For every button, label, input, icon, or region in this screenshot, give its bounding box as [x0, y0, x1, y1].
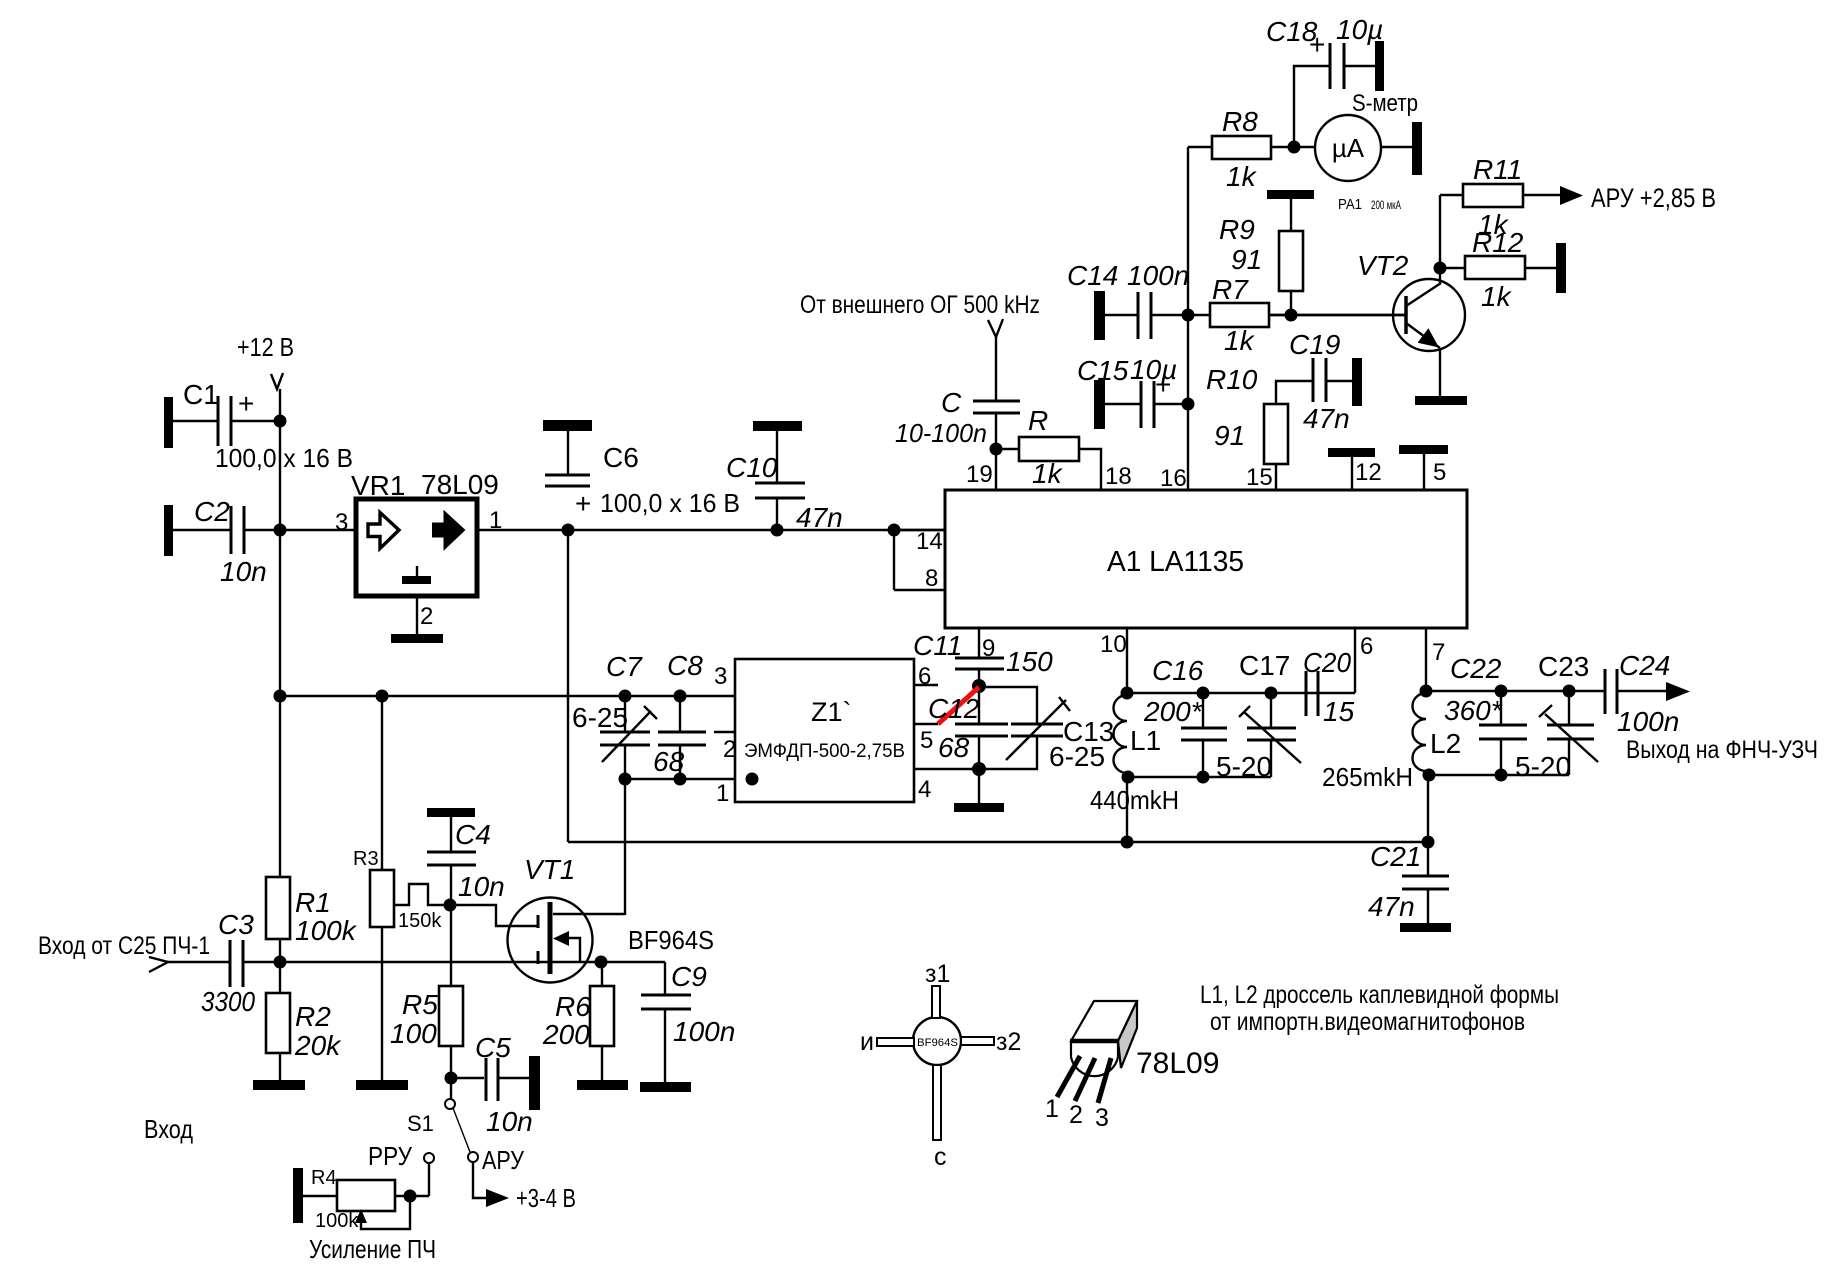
svg-text:100: 100	[390, 1018, 437, 1049]
svg-text:C4: C4	[455, 819, 491, 850]
svg-text:R7: R7	[1212, 274, 1249, 305]
svg-text:200*: 200*	[1143, 696, 1203, 727]
svg-text:R6: R6	[555, 991, 591, 1022]
svg-text:91: 91	[1231, 244, 1262, 275]
svg-text:VT2: VT2	[1357, 250, 1409, 281]
svg-text:5: 5	[1433, 459, 1446, 486]
svg-text:3: 3	[1095, 1104, 1109, 1132]
svg-text:Усиление ПЧ: Усиление ПЧ	[309, 1234, 436, 1264]
svg-text:18: 18	[1105, 463, 1132, 490]
svg-text:C5: C5	[475, 1032, 511, 1063]
svg-text:C17: C17	[1239, 650, 1290, 681]
svg-text:10n: 10n	[220, 556, 267, 587]
svg-text:6: 6	[1360, 633, 1373, 660]
svg-text:R: R	[1028, 405, 1048, 436]
svg-text:5: 5	[920, 727, 933, 754]
svg-text:1k: 1k	[1481, 281, 1513, 312]
svg-text:78L09: 78L09	[1136, 1047, 1219, 1080]
svg-text:7: 7	[1432, 639, 1445, 666]
svg-text:10µ: 10µ	[1336, 14, 1383, 45]
svg-text:200 мкА: 200 мкА	[1371, 198, 1401, 212]
svg-text:Вход от С25 ПЧ-1: Вход от С25 ПЧ-1	[38, 932, 210, 960]
svg-text:C19: C19	[1289, 329, 1340, 360]
svg-text:R9: R9	[1219, 214, 1255, 245]
svg-text:C2: C2	[194, 496, 230, 527]
svg-text:C11: C11	[913, 630, 962, 661]
svg-text:200: 200	[542, 1019, 590, 1050]
svg-text:C16: C16	[1152, 655, 1204, 686]
svg-text:20k: 20k	[294, 1030, 342, 1061]
svg-text:BF964S: BF964S	[628, 925, 714, 955]
svg-text:1k: 1k	[1224, 325, 1256, 356]
svg-text:10: 10	[1100, 631, 1127, 658]
svg-text:1: 1	[1045, 1095, 1059, 1123]
svg-text:47n: 47n	[796, 502, 843, 533]
svg-text:100n: 100n	[1617, 706, 1679, 737]
svg-text:+: +	[1309, 29, 1325, 60]
svg-text:5-20: 5-20	[1515, 751, 1571, 782]
svg-text:РРУ: РРУ	[368, 1141, 412, 1171]
svg-text:6-25: 6-25	[1049, 741, 1105, 772]
svg-text:100,0 x 16 В: 100,0 x 16 В	[215, 443, 353, 473]
svg-text:C20: C20	[1303, 647, 1351, 678]
svg-text:C14: C14	[1067, 260, 1118, 291]
svg-text:C1: C1	[183, 379, 219, 410]
svg-text:6: 6	[918, 663, 931, 690]
svg-text:150: 150	[1006, 646, 1053, 677]
svg-text:C10: C10	[726, 452, 778, 483]
svg-text:+3-4 В: +3-4 В	[516, 1183, 576, 1213]
svg-text:Вход: Вход	[144, 1114, 193, 1144]
svg-text:47n: 47n	[1368, 891, 1415, 922]
svg-text:10n: 10n	[458, 871, 505, 902]
svg-text:+: +	[238, 388, 254, 419]
svg-text:BF964S: BF964S	[917, 1037, 958, 1049]
svg-text:C15: C15	[1077, 355, 1129, 386]
svg-text:440mkH: 440mkH	[1090, 785, 1179, 815]
svg-text:1k: 1k	[1032, 458, 1064, 489]
svg-text:1: 1	[716, 780, 729, 807]
svg-text:10n: 10n	[486, 1106, 533, 1137]
svg-text:C3: C3	[218, 909, 254, 940]
svg-text:78L09: 78L09	[421, 469, 499, 500]
svg-text:R5: R5	[402, 989, 438, 1020]
svg-text:C12: C12	[928, 693, 980, 724]
svg-text:VT1: VT1	[524, 854, 575, 885]
svg-text:12: 12	[1355, 459, 1382, 486]
svg-text:19: 19	[966, 461, 993, 488]
svg-text:R2: R2	[295, 1001, 331, 1032]
svg-text:R12: R12	[1472, 227, 1524, 258]
svg-text:100k: 100k	[295, 915, 358, 946]
svg-text:R4: R4	[311, 1167, 337, 1189]
svg-text:L1: L1	[1130, 725, 1161, 756]
svg-text:8: 8	[925, 565, 938, 592]
svg-text:+: +	[1155, 369, 1171, 400]
svg-text:16: 16	[1160, 465, 1187, 492]
svg-text:µA: µA	[1332, 133, 1365, 163]
svg-text:68: 68	[938, 732, 970, 763]
svg-text:R1: R1	[295, 887, 331, 918]
svg-text:+12 В: +12 В	[237, 332, 294, 362]
svg-text:100,0 x 16 В: 100,0 x 16 В	[600, 488, 740, 518]
svg-text:15: 15	[1246, 464, 1273, 491]
svg-text:100k: 100k	[315, 1210, 359, 1232]
svg-text:АРУ +2,85 В: АРУ +2,85 В	[1591, 183, 1716, 213]
svg-text:47n: 47n	[1303, 403, 1350, 434]
svg-text:C6: C6	[603, 442, 639, 473]
svg-text:10-100n: 10-100n	[895, 418, 987, 448]
svg-text:PA1: PA1	[1338, 196, 1362, 213]
svg-text:VR1: VR1	[351, 470, 405, 501]
svg-text:C24: C24	[1619, 650, 1670, 681]
svg-text:C8: C8	[667, 650, 703, 681]
svg-text:68: 68	[653, 746, 685, 777]
svg-text:R3: R3	[353, 848, 379, 870]
svg-text:S-метр: S-метр	[1352, 90, 1418, 117]
svg-text:R10: R10	[1206, 364, 1258, 395]
svg-text:360*: 360*	[1444, 695, 1503, 726]
svg-text:2: 2	[1069, 1101, 1083, 1129]
svg-text:3: 3	[714, 663, 727, 690]
svg-text:C7: C7	[606, 651, 643, 682]
svg-text:ЭМФДП-500-2,75В: ЭМФДП-500-2,75В	[744, 741, 905, 762]
svg-text:L2: L2	[1430, 728, 1461, 759]
svg-text:R11: R11	[1473, 154, 1522, 185]
svg-text:Выход на ФНЧ-УЗЧ: Выход на ФНЧ-УЗЧ	[1626, 736, 1818, 764]
svg-text:2: 2	[420, 603, 433, 630]
svg-text:с: с	[934, 1143, 947, 1171]
svg-text:з2: з2	[996, 1028, 1021, 1056]
svg-text:100n: 100n	[1127, 260, 1189, 291]
svg-text:S1: S1	[407, 1111, 434, 1136]
svg-text:1k: 1k	[1226, 161, 1258, 192]
svg-text:265mkH: 265mkH	[1322, 762, 1413, 792]
svg-text:От внешнего ОГ 500 kHz: От внешнего ОГ 500 kHz	[800, 291, 1040, 319]
svg-text:15: 15	[1323, 696, 1355, 727]
svg-text:6-25: 6-25	[572, 702, 628, 733]
svg-text:91: 91	[1214, 420, 1245, 451]
svg-text:C21: C21	[1370, 841, 1421, 872]
svg-text:14: 14	[916, 528, 943, 555]
svg-text:и: и	[860, 1028, 874, 1056]
svg-text:C22: C22	[1450, 653, 1502, 684]
svg-text:150k: 150k	[398, 910, 442, 932]
svg-text:АРУ: АРУ	[482, 1145, 524, 1175]
svg-text:9: 9	[982, 635, 995, 662]
svg-text:C: C	[941, 387, 962, 418]
svg-text:3: 3	[335, 509, 348, 536]
svg-text:C9: C9	[671, 961, 707, 992]
svg-text:100n: 100n	[673, 1016, 735, 1047]
svg-text:R8: R8	[1222, 106, 1258, 137]
svg-text:4: 4	[918, 776, 931, 803]
svg-text:A1 LA1135: A1 LA1135	[1107, 546, 1244, 578]
svg-text:C23: C23	[1538, 651, 1589, 682]
svg-text:L1, L2 дроссель каплевидной фо: L1, L2 дроссель каплевидной формы	[1200, 981, 1559, 1009]
svg-text:от импортн.видеомагнитофонов: от импортн.видеомагнитофонов	[1210, 1008, 1525, 1036]
svg-text:+: +	[575, 488, 591, 519]
svg-text:3300: 3300	[201, 986, 255, 1017]
svg-text:з1: з1	[925, 960, 950, 988]
svg-text:Z1`: Z1`	[811, 697, 852, 727]
svg-text:2: 2	[723, 736, 736, 763]
